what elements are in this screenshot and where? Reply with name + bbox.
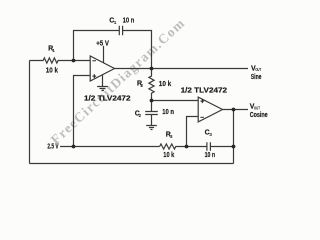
- ground symbol A1: [97, 87, 108, 91]
- svg-text:2.5 V: 2.5 V: [47, 143, 58, 150]
- wire: left feedback vertical: [29, 61, 31, 164]
- svg-text:2: 2: [140, 83, 143, 89]
- junction: node N2 R2/C2/A2+: [150, 99, 154, 103]
- svg-text:10 k: 10 k: [159, 81, 171, 88]
- wire: A1 V- pin to ground: [102, 75, 104, 87]
- junction: R3/C3/A2- node: [185, 145, 189, 149]
- svg-text:+5 V: +5 V: [96, 41, 109, 48]
- wire: node N2 to A2 noninverting input: [152, 100, 199, 102]
- junction: A2 output node: [232, 108, 236, 112]
- svg-text:OUT: OUT: [254, 105, 260, 110]
- op-amp U1A triangle: [90, 56, 114, 81]
- svg-text:1: 1: [52, 48, 55, 54]
- op-amp U1B triangle: [198, 97, 222, 122]
- op-amp U1A input polarity marks: [92, 58, 96, 81]
- resistor R2: [149, 69, 154, 101]
- watermark FreeCircuitDiagram.Com: [48, 15, 188, 147]
- wire: C3 to feedback node: [210, 146, 233, 148]
- ground symbol C2: [146, 126, 157, 130]
- wire: C1 feedback loop top: [74, 31, 120, 61]
- junction: 2.5V / A1+ node: [72, 145, 76, 149]
- svg-text:+: +: [92, 74, 96, 81]
- capacitor C2: [145, 101, 158, 126]
- svg-text:–: –: [92, 58, 96, 65]
- capacitor C3: [207, 142, 211, 151]
- op-amp U1B input polarity marks: [200, 99, 204, 122]
- svg-text:10 n: 10 n: [162, 109, 174, 116]
- svg-text:3: 3: [209, 132, 212, 138]
- wire: 2.5V rail: [60, 146, 160, 148]
- junction: A1 output / C1 / R2 node: [150, 67, 154, 71]
- svg-text:Sine: Sine: [251, 74, 262, 81]
- svg-text:3: 3: [170, 134, 173, 140]
- wire: +5V supply pin A1: [103, 46, 105, 63]
- resistor R3: [160, 144, 207, 149]
- junction: A1 inverting input node: [72, 59, 76, 63]
- svg-text:10 k: 10 k: [46, 68, 58, 75]
- wire: A2 inverting input to R3/C3 node: [187, 117, 199, 147]
- wire: right feedback vertical from A2 output: [233, 110, 235, 164]
- svg-text:+: +: [200, 99, 204, 106]
- svg-text:OUT: OUT: [255, 67, 261, 72]
- capacitor C1: [119, 26, 122, 35]
- svg-text:10 k: 10 k: [163, 152, 174, 159]
- svg-text:2: 2: [139, 113, 142, 119]
- svg-text:10 n: 10 n: [205, 152, 216, 159]
- svg-text:1: 1: [114, 20, 117, 26]
- svg-text:–: –: [200, 115, 204, 122]
- wire: A1 noninverting input to 2.5V rail: [74, 76, 91, 147]
- wire: A1 output to Vout Sine: [115, 68, 249, 70]
- svg-text:1/2 TLV2472: 1/2 TLV2472: [84, 95, 131, 102]
- svg-text:10 n: 10 n: [123, 18, 135, 25]
- junction: C3 / feedback node: [232, 145, 236, 149]
- resistor R1: [30, 58, 91, 63]
- wire: bottom feedback: [30, 163, 234, 165]
- svg-text:1/2 TLV2472: 1/2 TLV2472: [181, 87, 228, 94]
- svg-text:Cosine: Cosine: [250, 112, 268, 119]
- wire: A2 output to Vout Cosine: [223, 109, 249, 111]
